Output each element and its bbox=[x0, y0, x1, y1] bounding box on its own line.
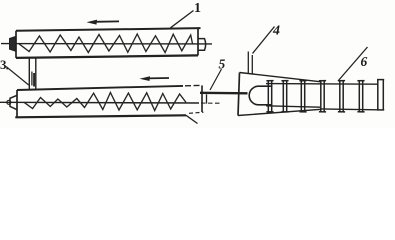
inlet pipe on cone bbox=[247, 52, 249, 74]
tube rib 6 bbox=[357, 80, 364, 112]
tube rib 4 bbox=[319, 80, 326, 112]
tube rib 2 bbox=[281, 80, 288, 112]
upper conveyor housing bbox=[16, 28, 201, 58]
svg-text:1: 1 bbox=[194, 1, 201, 16]
label 4 leader bbox=[253, 27, 275, 54]
svg-text:3: 3 bbox=[0, 57, 7, 72]
lower left bearing flange bbox=[10, 95, 17, 109]
svg-text:4: 4 bbox=[272, 24, 280, 39]
upper flow arrow bbox=[94, 20, 119, 22]
lower conveyor shaft axis bbox=[0, 101, 199, 104]
screw end bullet bbox=[249, 86, 271, 105]
tube rib 3 bbox=[299, 80, 306, 112]
tube end flange bbox=[377, 79, 384, 110]
drop chute walls bbox=[29, 58, 36, 90]
lower auger screw bbox=[24, 93, 186, 111]
upper auger screw bbox=[19, 34, 193, 53]
label 5 leader bbox=[210, 69, 222, 90]
svg-text:5: 5 bbox=[219, 57, 226, 72]
extension tube top edge bbox=[266, 83, 378, 86]
upper left bearing flange bbox=[10, 37, 16, 52]
lower conveyor housing bbox=[15, 85, 203, 123]
drive shaft to spout bbox=[200, 92, 248, 95]
label 1 leader bbox=[171, 11, 194, 28]
upper right end cap bbox=[199, 39, 206, 51]
extension tube bottom edge bbox=[320, 108, 378, 111]
extension tube inner bottom edge bbox=[266, 106, 320, 107]
label 6 leader bbox=[338, 47, 368, 81]
tube rib 1 bbox=[266, 80, 273, 112]
upper conveyor shaft axis bbox=[1, 43, 212, 45]
shaft coupling tick bbox=[206, 94, 208, 103]
chute material hatch bbox=[31, 72, 33, 86]
outer cone shell bbox=[238, 73, 321, 116]
tube rib 5 bbox=[338, 80, 345, 112]
label 3 leader bbox=[6, 67, 29, 86]
lower flow arrow bbox=[147, 77, 169, 79]
svg-text:6: 6 bbox=[361, 54, 368, 69]
